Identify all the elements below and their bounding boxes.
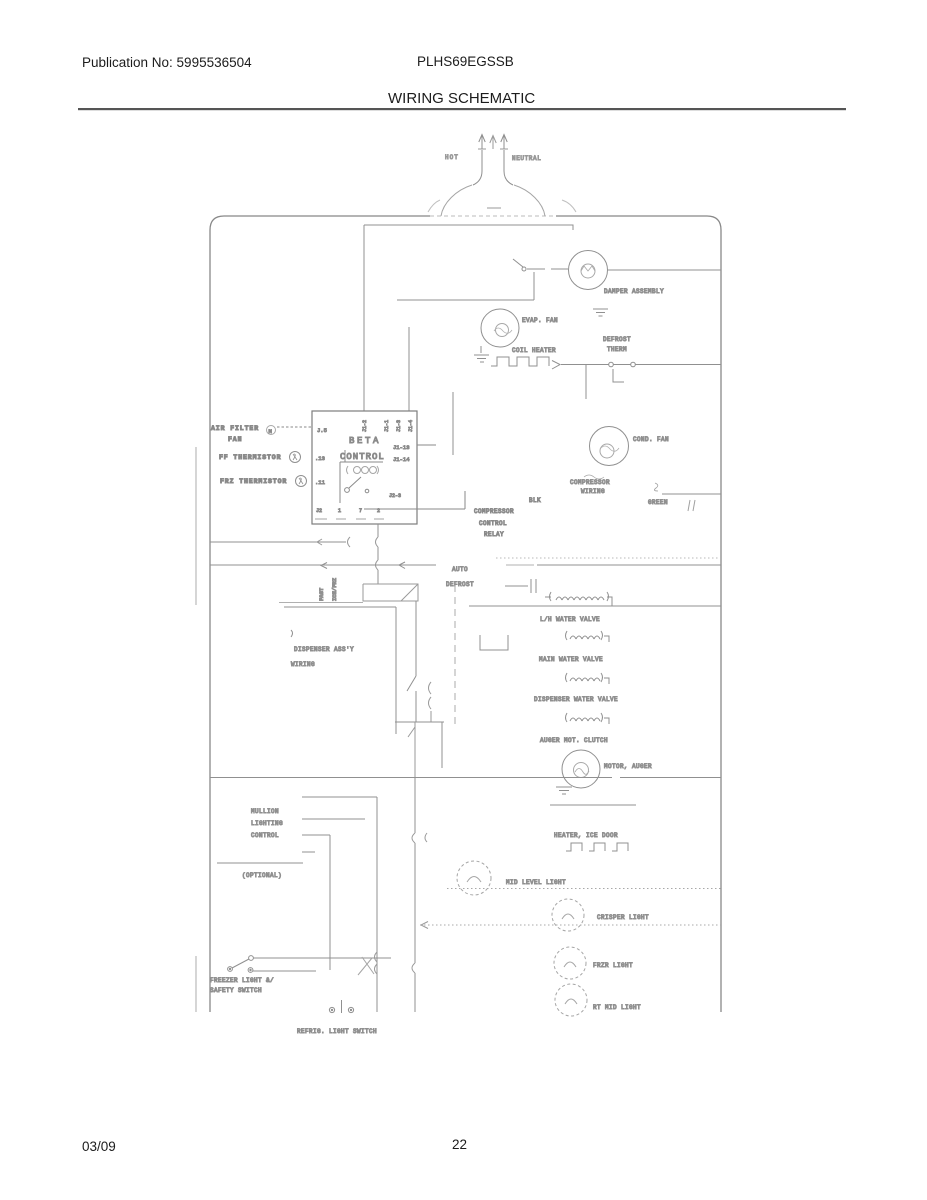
- wire valve bus: [469, 605, 721, 607]
- ground evap fan: [474, 355, 489, 362]
- svg-text:RT MID LIGHT: RT MID LIGHT: [593, 1004, 641, 1011]
- relay coil inside beta: [340, 450, 383, 503]
- wire dotted defrost feed: [496, 557, 718, 559]
- svg-text:J2: J2: [316, 508, 322, 514]
- wire dispenser column a: [407, 601, 416, 722]
- svg-text:FRZR LIGHT: FRZR LIGHT: [593, 962, 633, 969]
- ground damper: [593, 309, 608, 316]
- connector arcs column b: [429, 682, 432, 722]
- svg-text:.11: .11: [315, 479, 326, 486]
- wire mullion trunk: [376, 797, 378, 1012]
- plug mouth mark: [487, 207, 501, 209]
- wire bus 2 right: [506, 564, 534, 566]
- svg-text:NEUTRAL: NEUTRAL: [512, 155, 541, 162]
- svg-text:COMPRESSOR: COMPRESSOR: [474, 508, 514, 515]
- crisper light lamp: [552, 899, 584, 931]
- wire optional: [217, 862, 303, 864]
- boundary dashed dispenser: [454, 585, 456, 728]
- wire freezer switch upper: [253, 957, 391, 959]
- border top dashed under plug: [430, 215, 556, 217]
- ff thermistor symbol: [290, 452, 301, 463]
- wire green: [662, 493, 721, 495]
- svg-text:J1-13: J1-13: [393, 444, 410, 451]
- wire heater ice door feed: [550, 804, 636, 806]
- wire mullion 2: [302, 818, 365, 820]
- svg-text:FAN: FAN: [228, 436, 242, 443]
- crossover hops trunk: [412, 833, 427, 973]
- rt mid light lamp: [555, 984, 587, 1016]
- svg-text:HOT: HOT: [445, 154, 459, 161]
- auger motor: [562, 750, 600, 788]
- svg-text:WIRING: WIRING: [581, 488, 605, 495]
- svg-text:MID LEVEL LIGHT: MID LEVEL LIGHT: [506, 879, 566, 886]
- wire drop from defrost line: [585, 365, 587, 400]
- svg-text:LIGHTING: LIGHTING: [251, 820, 283, 827]
- compressor squiggle: [584, 475, 604, 479]
- wire jumper y722: [395, 721, 444, 723]
- svg-text:.13: .13: [315, 455, 325, 462]
- svg-text:J2-3: J2-3: [389, 493, 401, 499]
- freezer switch blade: [232, 959, 249, 968]
- beta control box: [312, 411, 417, 524]
- svg-text:COIL HEATER: COIL HEATER: [512, 347, 556, 354]
- svg-text:DISPENSER ASS'Y: DISPENSER ASS'Y: [294, 646, 354, 653]
- defrost contact mark: [613, 369, 624, 382]
- wire beta pin J1 drop: [363, 225, 365, 411]
- strain relief mark: [688, 500, 695, 511]
- svg-text:MAIN WATER VALVE: MAIN WATER VALVE: [539, 656, 603, 663]
- svg-text:AUGER MOT. CLUTCH: AUGER MOT. CLUTCH: [540, 737, 608, 744]
- svg-text:ICE/FRZ: ICE/FRZ: [331, 577, 338, 601]
- svg-text:MULLION: MULLION: [251, 808, 279, 815]
- wire dispenser top: [284, 607, 396, 734]
- svg-text:M: M: [269, 428, 272, 435]
- svg-text:CRISPER LIGHT: CRISPER LIGHT: [597, 914, 649, 921]
- coil heater element: [491, 357, 549, 366]
- wire column d: [441, 722, 443, 768]
- heater ice door element: [566, 843, 628, 851]
- wire crossing scribble: [358, 957, 374, 975]
- arrowhead bus 2: [321, 562, 405, 569]
- ground auger: [556, 787, 572, 794]
- svg-text:DAMPER ASSEMBLY: DAMPER ASSEMBLY: [604, 288, 664, 295]
- dispenser water valve coil: [570, 718, 600, 721]
- schematic border: [210, 216, 721, 1012]
- freezer light switch terminals: [249, 956, 254, 961]
- plug prong center: [490, 136, 496, 150]
- refrig switch divider: [341, 1000, 343, 1013]
- defrost heater coil: [556, 597, 604, 600]
- green terminal symbol: [654, 483, 658, 491]
- frzr light lamp: [554, 947, 586, 979]
- svg-text:FRZ THERMISTOR: FRZ THERMISTOR: [220, 478, 287, 485]
- svg-text:COND. FAN: COND. FAN: [633, 436, 669, 443]
- svg-text:BETA: BETA: [349, 436, 381, 446]
- svg-text:Publication No: 5995536504: Publication No: 5995536504: [82, 55, 252, 70]
- dispenser door switch bracket: [480, 635, 508, 650]
- svg-text:J1-2: J1-2: [362, 420, 368, 432]
- fast ice switch box: [363, 584, 418, 601]
- wire relay output: [364, 491, 465, 509]
- wire defrost thermostat: [561, 364, 721, 366]
- plug outer flare arcs: [428, 200, 576, 212]
- left rail wire: [195, 447, 197, 1012]
- wire stub mid: [452, 392, 454, 455]
- svg-text:7: 7: [359, 508, 362, 514]
- plug prong hot: [479, 135, 485, 150]
- svg-text:REFRIG. LIGHT SWITCH: REFRIG. LIGHT SWITCH: [297, 1028, 377, 1035]
- svg-text:J1-4: J1-4: [408, 420, 414, 432]
- arrow contact: [552, 361, 560, 370]
- title rule: [78, 108, 846, 110]
- svg-text:(OPTIONAL): (OPTIONAL): [242, 872, 282, 879]
- wire dotted crisper: [420, 924, 721, 926]
- svg-text:SAFETY SWITCH: SAFETY SWITCH: [210, 987, 262, 994]
- evap fan motor: [481, 309, 519, 347]
- connector arcs bus1: [317, 537, 350, 547]
- svg-text:GREEN: GREEN: [648, 499, 668, 506]
- svg-text:THERM: THERM: [607, 346, 627, 353]
- pin dashes bottom: [315, 518, 384, 520]
- svg-text:J1-14: J1-14: [393, 456, 410, 463]
- svg-text:CONTROL: CONTROL: [251, 832, 279, 839]
- wire trunk lower: [414, 777, 416, 1012]
- wire damper switch feed: [397, 272, 534, 300]
- svg-text:EVAP. FAN: EVAP. FAN: [522, 317, 558, 324]
- svg-text:WIRING: WIRING: [291, 661, 315, 668]
- wire main bottom bus: [210, 777, 721, 779]
- svg-text:PLHS69EGSSB: PLHS69EGSSB: [417, 54, 514, 69]
- plug prong neutral: [501, 135, 507, 150]
- wire damper to border: [608, 269, 722, 271]
- svg-text:03/09: 03/09: [82, 1139, 116, 1154]
- svg-text:J1-1: J1-1: [384, 420, 390, 432]
- svg-text:COMPRESSOR: COMPRESSOR: [570, 479, 610, 486]
- wire dashed air filter: [277, 426, 311, 428]
- relay contact arm: [345, 488, 350, 493]
- wire bus 1: [210, 541, 346, 543]
- svg-text:FAST: FAST: [318, 587, 325, 601]
- svg-text:J.5: J.5: [317, 427, 327, 434]
- defrost thermostat terminals: [609, 362, 614, 367]
- wire evap fan to ground: [480, 346, 482, 353]
- refrig switch terminals: [329, 1007, 334, 1012]
- lh water valve coil: [570, 636, 600, 639]
- wire beta to dispenser: [377, 524, 379, 584]
- air filter fan motor M: [267, 426, 276, 435]
- condenser fan motor: [590, 427, 629, 466]
- svg-text:HEATER, ICE DOOR: HEATER, ICE DOOR: [554, 832, 618, 839]
- svg-text:AIR FILTER: AIR FILTER: [211, 425, 259, 432]
- connector hops on beta drop: [376, 537, 379, 570]
- wire stub J1-13: [417, 444, 436, 446]
- svg-text:FF THERMISTOR: FF THERMISTOR: [219, 454, 281, 461]
- wire mullion top: [302, 796, 377, 798]
- svg-text:CONTROL: CONTROL: [479, 520, 507, 527]
- wire freezer switch lower: [253, 970, 316, 972]
- wire light upper valve: [279, 602, 363, 604]
- svg-text:DEFROST: DEFROST: [446, 581, 474, 588]
- svg-text:L/H WATER VALVE: L/H WATER VALVE: [540, 616, 600, 623]
- wire top inner: [364, 225, 573, 230]
- wire dotted mid level: [447, 888, 721, 890]
- svg-text:CONTROL: CONTROL: [340, 452, 385, 462]
- svg-text:WIRING SCHEMATIC: WIRING SCHEMATIC: [388, 90, 535, 107]
- svg-text:BLK: BLK: [529, 497, 541, 504]
- main water valve coil: [570, 678, 600, 681]
- wire stub right of evap: [408, 327, 410, 411]
- damper motor circle: [569, 251, 608, 290]
- label dispenser assy wiring: [291, 630, 293, 637]
- plug prong bars: [478, 148, 508, 150]
- capacitor defrost: [505, 579, 536, 593]
- frz thermistor symbol: [296, 476, 307, 487]
- svg-text:RELAY: RELAY: [484, 531, 504, 538]
- svg-text:MOTOR, AUGER: MOTOR, AUGER: [604, 763, 652, 770]
- power cord plug bell: [441, 185, 545, 216]
- mid level light lamp: [457, 861, 491, 895]
- wire mullion 4: [302, 851, 315, 853]
- wire column c: [408, 722, 415, 777]
- svg-text:1: 1: [338, 508, 341, 514]
- wire bus 2 left: [210, 564, 436, 566]
- svg-text:AUTO: AUTO: [452, 566, 468, 573]
- svg-text:FREEZER LIGHT &/: FREEZER LIGHT &/: [210, 977, 274, 984]
- svg-text:DISPENSER WATER VALVE: DISPENSER WATER VALVE: [534, 696, 618, 703]
- svg-text:DEFROST: DEFROST: [603, 336, 631, 343]
- damper switch: [522, 267, 526, 271]
- svg-text:J1-3: J1-3: [396, 420, 402, 432]
- svg-text:22: 22: [452, 1137, 467, 1152]
- wire mullion 3: [302, 835, 330, 970]
